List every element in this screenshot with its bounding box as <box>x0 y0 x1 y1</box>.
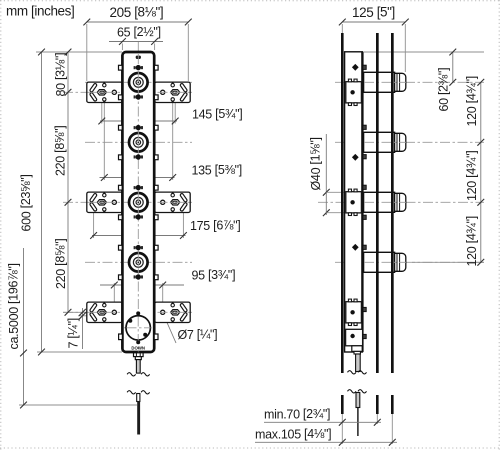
hose end dark <box>137 402 140 435</box>
centerline cyl row4 <box>335 261 484 263</box>
dim 7 line <box>82 308 84 349</box>
extension body top right for 60 <box>364 51 484 53</box>
centerline cyl row2 <box>335 141 484 143</box>
svg-text:ca.5000 [196⅞"]: ca.5000 [196⅞"] <box>7 263 22 349</box>
extension 125 left <box>341 24 343 33</box>
extension 125 right <box>404 24 406 72</box>
svg-text:95 [3¾"]: 95 [3¾"] <box>192 268 236 283</box>
extension 95 left <box>113 283 115 302</box>
wall lines over cylinders <box>376 33 379 373</box>
dim 95 line <box>100 284 184 286</box>
svg-text:220 [8⅝"]: 220 [8⅝"] <box>53 126 68 176</box>
dim 65 line <box>109 41 163 43</box>
side tube <box>356 354 361 372</box>
finished wall max line <box>391 33 394 373</box>
cylinder 3 <box>364 192 406 212</box>
crosshair over bottom circle <box>127 327 151 329</box>
side bracket 2 <box>346 189 362 215</box>
extension Ø40 top <box>326 191 345 193</box>
svg-text:125 [5"]: 125 [5"] <box>352 5 395 21</box>
svg-text:120 [4¾"]: 120 [4¾"] <box>465 151 480 201</box>
extension 175 right <box>182 213 184 238</box>
cylinder 4 <box>364 252 406 272</box>
mounting bracket row3 right <box>155 302 191 322</box>
bottom circle screw top <box>136 311 140 315</box>
svg-text:175 [6⅞"]: 175 [6⅞"] <box>190 219 240 234</box>
centerline valve row 2 <box>85 141 192 143</box>
extension 135 left <box>103 102 105 180</box>
bottom unit circle <box>126 316 150 340</box>
svg-text:145 [5¾"]: 145 [5¾"] <box>192 107 242 122</box>
svg-text:120 [4¾"]: 120 [4¾"] <box>465 76 480 126</box>
bottom circle screw upper-left <box>128 319 132 323</box>
dim 135 line <box>100 177 175 179</box>
dim 125 line <box>342 21 405 23</box>
dim ca.5000 line <box>23 248 25 405</box>
extension body top <box>36 51 122 53</box>
vertical centerline front body <box>137 42 139 374</box>
dim 600 line <box>41 52 43 352</box>
svg-text:DOWN: DOWN <box>131 346 145 351</box>
body outline front <box>122 52 154 352</box>
svg-text:Ø7 [¼"]: Ø7 [¼"] <box>178 328 218 343</box>
extension 175 left <box>93 213 95 238</box>
extension hose end <box>19 404 137 406</box>
svg-text:80 [3⅛"]: 80 [3⅛"] <box>54 53 69 97</box>
leader Ø7 <box>164 315 177 344</box>
extension 145 left <box>101 103 103 124</box>
centerlines over brackets <box>88 91 190 93</box>
centerline inside body (redraw over white) <box>137 54 139 373</box>
body edge tabs at bottom circle <box>119 334 123 340</box>
extension 205 right <box>187 24 189 81</box>
svg-text:60 [2⅜"]: 60 [2⅜"] <box>437 68 452 112</box>
dim chain 80/220/220 line <box>67 52 69 312</box>
extension 205 left <box>86 24 88 81</box>
valve V4 <box>119 245 159 280</box>
outlet fitting nut <box>134 353 144 357</box>
dim Ø40 line <box>325 134 327 215</box>
side outlet fitting <box>352 346 362 352</box>
svg-text:mm [inches]: mm [inches] <box>6 4 74 19</box>
centerline bracket row 1 <box>63 91 192 93</box>
extension 145 right <box>174 103 176 124</box>
svg-text:135 [5⅜"]: 135 [5⅜"] <box>192 163 242 178</box>
outlet tube upper <box>136 360 140 374</box>
side break squiggles <box>348 371 357 374</box>
svg-text:600 [23⅝"]: 600 [23⅝"] <box>19 174 34 231</box>
extension 65 right <box>154 44 156 51</box>
top screw mark <box>136 56 141 59</box>
centerline cyl row1 <box>335 81 484 83</box>
valve V2 <box>119 125 159 160</box>
dim 60 line <box>452 52 454 82</box>
extension 7 dim lower <box>78 315 88 317</box>
side centerlines over cylinders <box>364 81 406 83</box>
svg-text:Ø40 [1⅝"]: Ø40 [1⅝"] <box>309 137 324 190</box>
side hose stub <box>356 393 360 408</box>
side screw diamond 3 <box>352 244 359 251</box>
dim 145 line <box>100 120 177 122</box>
extension 7 dim upper <box>63 311 87 313</box>
mounting bracket row1 right <box>155 82 191 102</box>
mounting bracket row2 right <box>155 192 191 212</box>
extension 95 right <box>162 283 164 302</box>
dim 175 line <box>92 235 186 237</box>
svg-text:min.70 [2¾"]: min.70 [2¾"] <box>264 407 330 422</box>
side screw diamond 1 <box>352 64 359 71</box>
side screw diamond 2 <box>352 154 359 161</box>
mounting bracket row3 left <box>87 302 123 322</box>
centerline cyl row3 <box>318 201 484 203</box>
svg-text:120 [4¾"]: 120 [4¾"] <box>465 216 480 266</box>
dim min.70 line <box>264 421 381 423</box>
extension 135 right <box>172 102 174 180</box>
dim 120 chain line <box>480 82 482 262</box>
svg-text:205 [8⅛"]: 205 [8⅛"] <box>110 5 164 21</box>
mounting bracket row2 left <box>87 192 123 212</box>
finished wall min line <box>376 33 379 373</box>
side body tabs <box>363 65 366 69</box>
outlet fitting collar <box>135 357 141 360</box>
cylinder 2 <box>364 132 406 152</box>
extension 65 left <box>121 44 123 51</box>
side bracket 1 <box>346 79 362 105</box>
cylinder 1 <box>364 72 406 92</box>
extension body bottom <box>37 351 122 353</box>
mounting bracket row1 left <box>87 82 123 102</box>
dim max.105 line <box>255 441 397 443</box>
hose stub below break <box>137 394 140 402</box>
break squiggle lower <box>127 391 136 394</box>
side hose thin end <box>357 408 359 437</box>
bottom circle screw lower-right <box>143 333 147 337</box>
svg-text:220 [8⅝"]: 220 [8⅝"] <box>54 239 69 289</box>
centerline valve row 4 <box>85 261 192 263</box>
side body profile <box>345 52 363 352</box>
svg-text:7 [¼"]: 7 [¼"] <box>66 318 81 348</box>
valve V3 <box>119 185 159 220</box>
svg-text:65 [2½"]: 65 [2½"] <box>117 25 161 40</box>
wall stud line <box>341 33 344 373</box>
centerline bracket row 3 <box>63 311 192 313</box>
extension Ø40 bottom <box>326 212 345 214</box>
side outlet block <box>346 329 363 346</box>
centerline valve row 1 <box>85 81 192 83</box>
centerline bracket row 2 / valve row 3 <box>63 201 192 203</box>
valve V1 <box>119 65 159 100</box>
side bracket 3 <box>346 299 362 325</box>
extension 120 chain bottom <box>412 261 484 263</box>
dim 205 line <box>87 21 189 23</box>
break squiggle top <box>127 373 136 376</box>
bottom circle screw bottom <box>136 340 140 344</box>
svg-text:max.105 [4⅛"]: max.105 [4⅛"] <box>255 427 331 442</box>
